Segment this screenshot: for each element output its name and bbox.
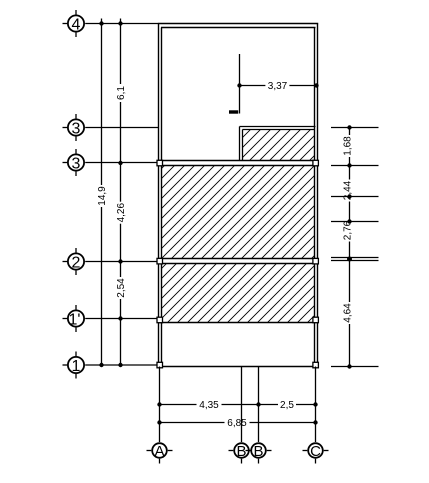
hatch area room 2: [162, 264, 315, 323]
dimension 3,37 line: [240, 85, 317, 87]
wall bottom: [158, 366, 318, 368]
grid bubble B2: [246, 443, 272, 464]
wall top: [158, 24, 318, 28]
column marker C1: [157, 317, 163, 323]
dimension row 2 line: [160, 422, 316, 424]
text mask 14,9: [97, 185, 107, 207]
svg-text:3: 3: [72, 120, 81, 137]
extension line B2: [258, 367, 260, 443]
column marker D1: [157, 362, 163, 368]
svg-text:4: 4: [72, 16, 81, 33]
interior wall A: [159, 161, 316, 166]
dimension line left inner: [120, 19, 122, 368]
grid line 3: [85, 127, 158, 129]
grid line 1b: [85, 318, 158, 320]
grid line 4: [85, 23, 158, 25]
dot right 3: [347, 125, 351, 129]
text mask 4,64: [343, 302, 353, 324]
text mask 1,68: [343, 135, 353, 157]
right tick bottom: [331, 366, 379, 368]
canopy outline: [240, 127, 316, 161]
right tick 3b: [331, 165, 379, 167]
svg-text:3: 3: [72, 155, 81, 172]
interior wall B: [159, 259, 316, 264]
grid bubble 4: [63, 10, 85, 37]
extension line C: [315, 367, 317, 443]
grid line 3b: [85, 162, 158, 164]
svg-text:2,54: 2,54: [116, 278, 127, 298]
wall left: [159, 24, 162, 367]
dot left dim bottom 1: [99, 363, 103, 367]
svg-text:B: B: [253, 443, 263, 460]
dot right m2: [347, 219, 351, 223]
wall stub black: [229, 110, 238, 113]
svg-text:3,37: 3,37: [268, 81, 288, 92]
dimension 3,37 extension line: [239, 54, 241, 114]
dot right bottom: [347, 364, 351, 368]
svg-text:B: B: [236, 443, 246, 460]
hatch area canopy: [243, 130, 315, 161]
interior wall C: [159, 322, 316, 324]
grid line 2: [85, 261, 158, 263]
grid bubble 1: [63, 352, 85, 379]
text mask 2,76: [343, 220, 353, 242]
svg-text:1': 1': [69, 311, 81, 328]
svg-text:4,26: 4,26: [116, 203, 127, 223]
dimension row 1 line: [160, 404, 316, 406]
extension line B1: [241, 367, 243, 443]
svg-text:2,5: 2,5: [280, 400, 294, 411]
dot bottom row1 C: [313, 402, 317, 406]
dot bottom row2 C: [313, 420, 317, 424]
wall right: [315, 24, 318, 367]
right tick m1: [331, 196, 379, 198]
text mask 4,26: [116, 202, 126, 224]
svg-text:6,85: 6,85: [227, 418, 247, 429]
svg-text:1,68: 1,68: [343, 136, 354, 156]
extension line A: [159, 367, 161, 443]
dot 3,37 right: [314, 83, 318, 87]
svg-text:6,1: 6,1: [116, 86, 127, 100]
svg-text:2: 2: [72, 254, 81, 271]
dot left dim 3b: [118, 161, 122, 165]
grid bubble 3b: [63, 149, 85, 176]
grid bubble A: [147, 443, 173, 464]
text mask 2,5: [278, 400, 296, 409]
text mask 2,54: [116, 277, 126, 299]
column marker C2: [313, 317, 319, 323]
svg-text:A: A: [154, 443, 164, 460]
dot bottom row2 A: [157, 420, 161, 424]
text mask 6,85: [225, 418, 250, 427]
svg-text:14,9: 14,9: [97, 186, 108, 206]
text mask 6,1: [116, 84, 126, 102]
column marker B1: [157, 258, 163, 264]
text mask 3,37: [265, 81, 289, 90]
dot left dim top 1: [99, 21, 103, 25]
grid bubble 3: [63, 114, 85, 141]
svg-text:1: 1: [72, 358, 81, 375]
right tick m2: [331, 221, 379, 223]
grid line 1: [85, 364, 158, 366]
dimension line right vertical: [349, 128, 351, 367]
grid bubble C: [303, 443, 329, 464]
text mask 4,35: [197, 400, 222, 409]
grid bubble B1: [229, 443, 255, 464]
dot left dim 1b: [118, 316, 122, 320]
svg-text:2,76: 2,76: [343, 220, 354, 240]
dot left dim top 2: [118, 21, 122, 25]
svg-text:4,64: 4,64: [343, 303, 354, 323]
dot bottom row1 B: [256, 402, 260, 406]
dimension line left outer 14,9: [101, 19, 103, 368]
column marker A2: [313, 160, 319, 166]
grid bubble 2: [63, 248, 85, 275]
dot 3,37 left: [237, 83, 241, 87]
right tick 3: [331, 127, 379, 129]
svg-text:4,35: 4,35: [199, 400, 219, 411]
column marker B2: [313, 258, 319, 264]
dot left dim 2: [118, 259, 122, 263]
text mask 2,44: [343, 180, 353, 202]
column marker A1: [157, 160, 163, 166]
dot right wall: [347, 257, 352, 262]
svg-text:C: C: [310, 443, 321, 460]
right tick double: [331, 258, 379, 261]
column marker D2: [313, 362, 319, 368]
dot left dim bottom 2: [118, 363, 122, 367]
grid bubble 1b: [63, 305, 85, 332]
dot right 3b: [347, 163, 351, 167]
dot right m1: [347, 194, 351, 198]
hatch area room 1: [162, 166, 315, 259]
dot bottom row1 A: [157, 402, 161, 406]
